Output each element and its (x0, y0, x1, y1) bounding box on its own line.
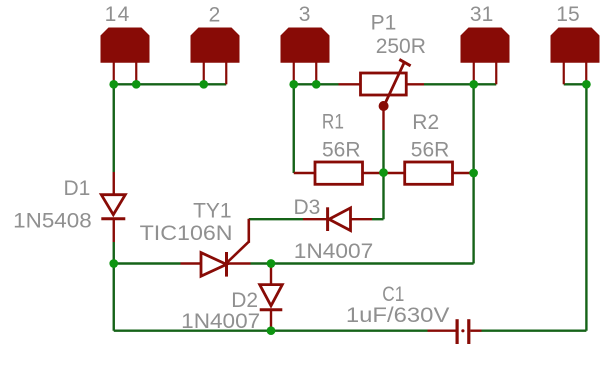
svg-text:31: 31 (470, 3, 493, 26)
svg-text:1N4007: 1N4007 (181, 310, 260, 333)
svg-text:1uF/630V: 1uF/630V (346, 304, 450, 327)
svg-text:P1: P1 (371, 12, 397, 35)
svg-text:D3: D3 (294, 196, 321, 219)
svg-text:250R: 250R (376, 35, 426, 58)
svg-text:56R: 56R (411, 139, 450, 162)
svg-text:TY1: TY1 (193, 199, 232, 222)
svg-text:1N5408: 1N5408 (13, 210, 92, 233)
svg-text:TIC106N: TIC106N (140, 222, 233, 245)
svg-text:2: 2 (209, 3, 221, 26)
svg-text:1N4007: 1N4007 (294, 240, 374, 263)
svg-text:14: 14 (105, 3, 131, 26)
svg-text:D2: D2 (231, 289, 258, 312)
svg-text:R2: R2 (412, 111, 439, 134)
svg-text:56R: 56R (322, 139, 361, 162)
svg-text:3: 3 (299, 3, 311, 26)
svg-text:R1: R1 (322, 111, 344, 134)
svg-text:15: 15 (556, 3, 579, 26)
svg-text:D1: D1 (64, 177, 91, 200)
svg-text:C1: C1 (382, 283, 404, 306)
